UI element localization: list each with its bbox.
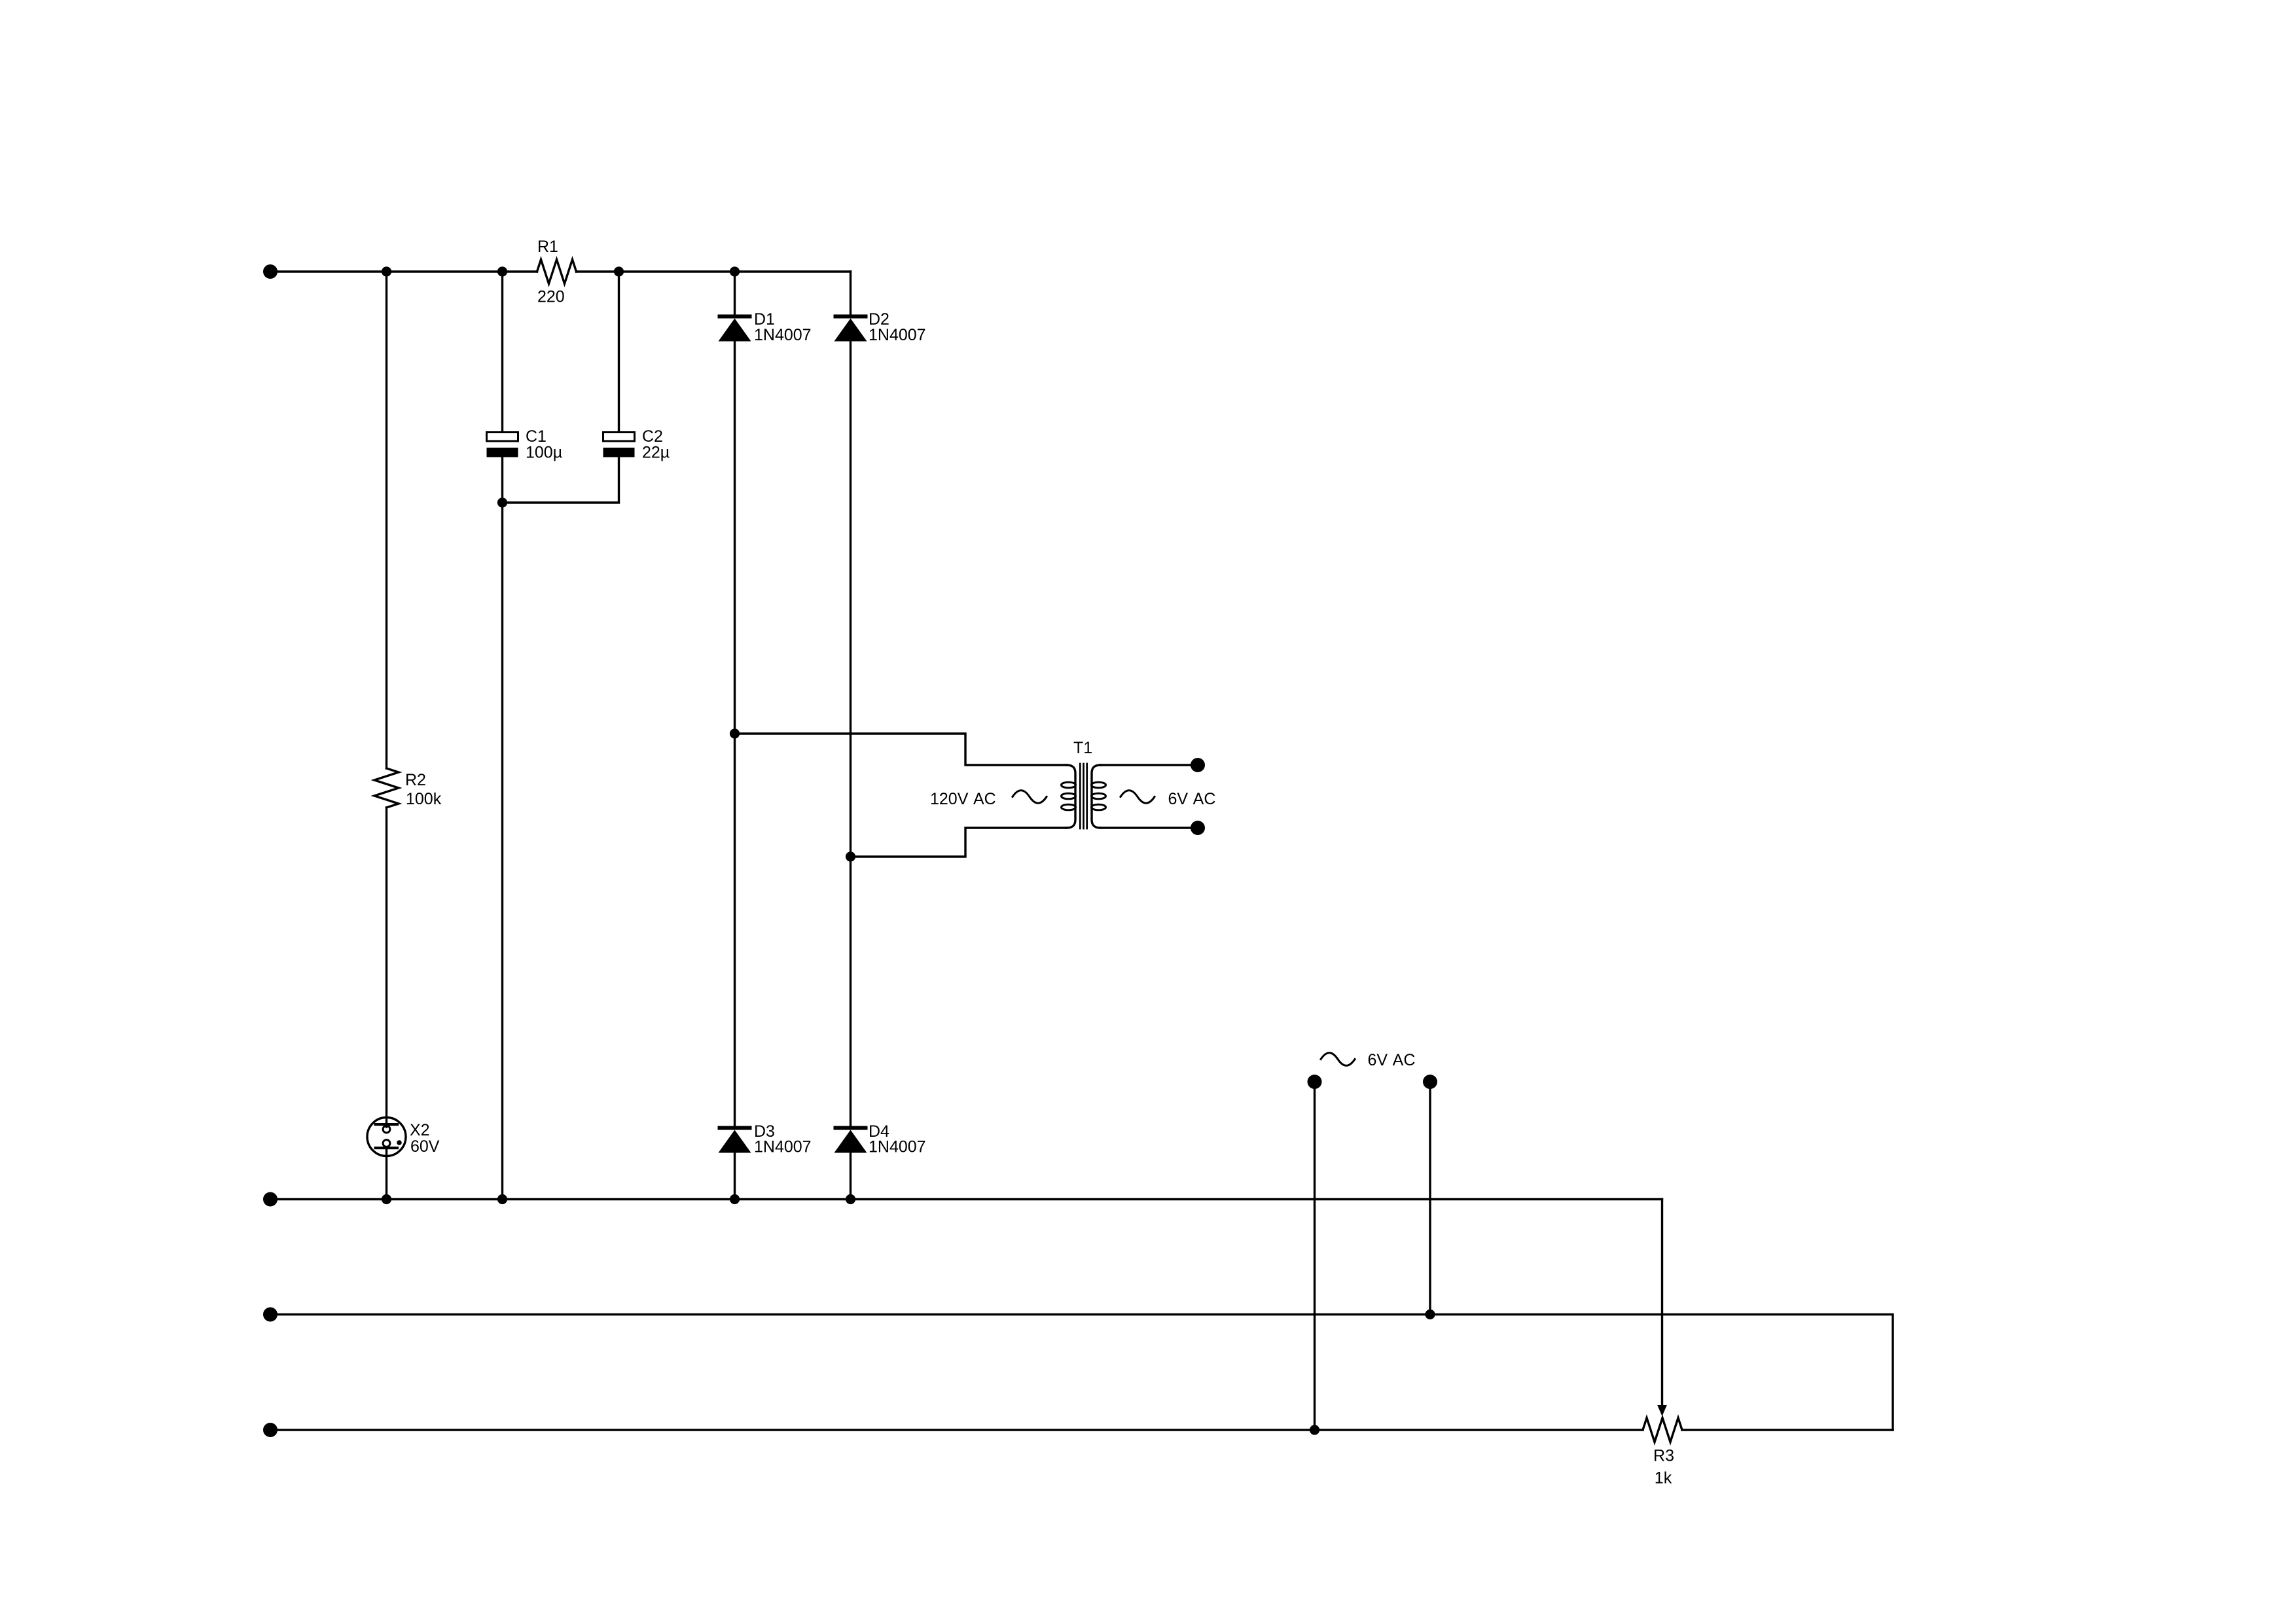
wire R3 wiper from bus1 <box>1661 1200 1663 1408</box>
wire D4 to bus1 <box>850 1153 852 1200</box>
svg-text:1k: 1k <box>1655 1469 1672 1488</box>
capacitor C1 <box>487 427 563 462</box>
svg-text:1N4007: 1N4007 <box>869 326 926 344</box>
wire D1 to D3 <box>734 342 736 1126</box>
svg-text:6V AC: 6V AC <box>1368 1051 1416 1069</box>
node 6V AC left terminal <box>1308 1075 1322 1089</box>
node left top terminal <box>263 264 278 279</box>
svg-text:R1: R1 <box>537 238 558 256</box>
svg-text:1N4007: 1N4007 <box>754 326 812 344</box>
svg-text:R2: R2 <box>405 771 426 789</box>
wire R2 branch upper <box>386 272 387 768</box>
bus3 right of R3 <box>1682 1429 1893 1431</box>
node junction top C1 branch <box>497 266 507 276</box>
node bus1 left terminal <box>263 1192 278 1207</box>
transformer T1 <box>1062 739 1106 829</box>
node junction bus1 D4 <box>846 1194 855 1204</box>
wire transformer primary top jog <box>735 734 1067 765</box>
wire D2 branch from top corner <box>850 272 852 315</box>
svg-text:6V AC: 6V AC <box>1168 790 1216 808</box>
wire D2 to D4 <box>850 342 852 1126</box>
wire D3 to bus1 <box>734 1153 736 1200</box>
diode D1 <box>718 310 812 344</box>
node junction top C2 branch <box>614 266 624 276</box>
wire transformer primary bottom jog <box>851 828 1067 857</box>
resistor R1 <box>537 238 577 306</box>
svg-text:60V: 60V <box>410 1137 440 1156</box>
wire D1 branch upper <box>734 272 736 315</box>
bus1 horizontal <box>270 1198 1662 1200</box>
node bus3 left terminal <box>263 1423 278 1437</box>
connector X2 <box>367 1118 440 1156</box>
wire top bus right segment <box>577 270 851 272</box>
wire R2 to X2 <box>386 808 387 1127</box>
wire C1 to bus1 <box>501 457 503 1200</box>
diode D3 <box>718 1122 812 1156</box>
bus3 horizontal left of R3 <box>270 1429 1643 1431</box>
node junction primary bottom <box>846 851 855 861</box>
diode D2 <box>834 310 926 344</box>
node junction bus2 right 6V AC <box>1425 1310 1435 1319</box>
bus2 horizontal <box>270 1315 1893 1431</box>
arrow R3 wiper <box>1657 1405 1667 1416</box>
node junction C1-C2 <box>497 497 507 507</box>
node secondary bottom terminal <box>1191 821 1205 835</box>
diode D4 <box>834 1122 926 1156</box>
sine symbol primary <box>1013 791 1047 804</box>
wire C2 branch upper <box>618 272 620 433</box>
sine symbol 6V AC source <box>1321 1053 1355 1066</box>
svg-text:120V AC: 120V AC <box>930 790 996 808</box>
wire C1 branch upper <box>501 272 503 433</box>
node junction top D1 branch <box>730 266 740 276</box>
wire 6V AC right vertical <box>1429 1082 1431 1315</box>
svg-text:220: 220 <box>537 288 565 306</box>
wire X2 to bus1 <box>386 1149 387 1200</box>
capacitor C2 <box>603 427 670 462</box>
node 6V AC right terminal <box>1423 1075 1437 1089</box>
wire top bus left segment <box>270 270 537 272</box>
svg-text:1N4007: 1N4007 <box>869 1138 926 1156</box>
node junction bus3 left 6V AC <box>1310 1425 1319 1435</box>
svg-text:X2: X2 <box>410 1121 430 1139</box>
resistor R2 <box>374 768 442 808</box>
svg-text:R3: R3 <box>1653 1447 1674 1465</box>
svg-text:1N4007: 1N4007 <box>754 1138 812 1156</box>
node junction primary top <box>730 728 740 738</box>
svg-text:100µ: 100µ <box>526 444 562 462</box>
node bus2 left terminal <box>263 1308 278 1322</box>
wire secondary top <box>1101 764 1198 766</box>
node junction bus1 C1 <box>497 1194 507 1204</box>
node junction bus1 D3 <box>730 1194 740 1204</box>
svg-text:22µ: 22µ <box>642 444 670 462</box>
wire C2 bottom jog <box>503 457 619 503</box>
wire secondary bottom <box>1101 827 1198 829</box>
wire 6V AC left vertical <box>1314 1082 1316 1430</box>
node junction top R2 branch <box>382 266 391 276</box>
svg-text:T1: T1 <box>1073 739 1092 757</box>
resistor R3 <box>1643 1418 1682 1488</box>
sine symbol secondary <box>1121 791 1155 804</box>
svg-text:100k: 100k <box>406 790 442 808</box>
node secondary top terminal <box>1191 758 1205 772</box>
node junction bus1 X2 <box>382 1194 391 1204</box>
